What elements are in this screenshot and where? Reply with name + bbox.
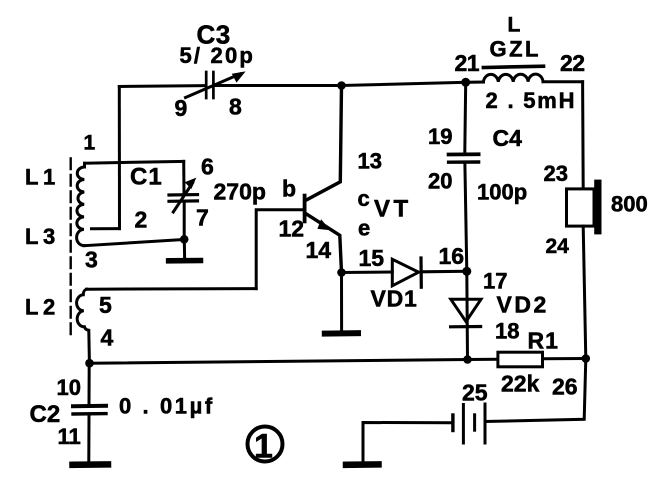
svg-text:18: 18 bbox=[495, 319, 519, 344]
capacitor C4 plates bbox=[449, 154, 479, 162]
svg-text:GZL: GZL bbox=[490, 37, 542, 62]
ground at C2 bbox=[73, 416, 109, 465]
svg-text:22k: 22k bbox=[501, 370, 540, 396]
wire node21 to inductor bbox=[466, 81, 484, 84]
svg-text:2 . 5mH: 2 . 5mH bbox=[486, 88, 577, 113]
ground at C1 bbox=[169, 239, 201, 260]
wire L1 top to C1 bbox=[85, 161, 184, 163]
svg-text:4: 4 bbox=[101, 324, 114, 350]
node 16 junction bbox=[462, 267, 471, 276]
wire top bus left segment bbox=[119, 84, 204, 88]
svg-text:17: 17 bbox=[483, 269, 507, 294]
capacitor C2 plates bbox=[73, 406, 106, 414]
svg-text:26: 26 bbox=[552, 374, 578, 400]
ground at emitter bbox=[325, 273, 358, 334]
svg-text:11: 11 bbox=[58, 424, 81, 449]
wire VD1 cathode to node 16 bbox=[421, 270, 467, 274]
svg-text:16: 16 bbox=[439, 243, 465, 269]
svg-text:15: 15 bbox=[359, 245, 385, 271]
diode VD1 triangle bbox=[392, 259, 418, 286]
svg-text:14: 14 bbox=[306, 237, 332, 263]
wire battery to ground corner bbox=[363, 423, 450, 462]
inductor L2 winding bbox=[77, 289, 90, 363]
wire C3 corner down to coil tap bbox=[118, 87, 121, 229]
wire L1 bottom (pin 3) to C1 bbox=[84, 240, 184, 246]
svg-text:0 . 01µf: 0 . 01µf bbox=[119, 394, 215, 419]
svg-text:100p: 100p bbox=[477, 180, 527, 205]
svg-text:L1: L1 bbox=[25, 165, 60, 190]
svg-text:24: 24 bbox=[546, 235, 570, 258]
svg-text:L3: L3 bbox=[25, 224, 60, 249]
inductor L1 winding bbox=[77, 163, 85, 245]
wire bottom bus bbox=[90, 360, 468, 364]
capacitor C3 plates bbox=[206, 72, 213, 98]
svg-text:22: 22 bbox=[560, 50, 585, 76]
diode VD2 triangle bbox=[451, 299, 481, 321]
diode VD1 cathode bar bbox=[419, 258, 422, 287]
speaker BE diaphragm bar bbox=[594, 180, 601, 235]
node emitter junction 15 bbox=[337, 268, 346, 277]
wire C1 stem top bbox=[182, 161, 185, 193]
core dashed line L1/L2 bbox=[69, 159, 71, 335]
svg-text:L2: L2 bbox=[25, 294, 60, 319]
svg-text:12: 12 bbox=[279, 215, 305, 241]
capacitor C1 trimmer arrow bbox=[173, 178, 196, 212]
battery GB plates bbox=[453, 404, 485, 443]
wire node 26 down to battery corner bbox=[486, 359, 586, 422]
svg-text:e: e bbox=[358, 216, 370, 241]
svg-text:c: c bbox=[358, 186, 370, 211]
wire C1 stem bottom bbox=[183, 203, 186, 240]
transistor VT collector bbox=[306, 86, 342, 201]
resistor R1 body bbox=[498, 352, 543, 367]
svg-text:20: 20 bbox=[428, 168, 452, 193]
transistor VT emitter with arrow bbox=[306, 214, 342, 273]
wire coil tap 2 bbox=[92, 227, 120, 230]
ground at battery bbox=[346, 461, 379, 468]
capacitor C3 trimmer arrow bbox=[186, 71, 246, 97]
wire right vertical to speaker bbox=[581, 82, 585, 189]
svg-text:13: 13 bbox=[358, 149, 382, 174]
svg-text:L: L bbox=[508, 14, 521, 37]
svg-text:R1: R1 bbox=[528, 328, 559, 354]
capacitor C1 plates bbox=[169, 195, 198, 202]
svg-text:800: 800 bbox=[611, 192, 648, 217]
speaker BE body bbox=[567, 189, 595, 226]
svg-text:7: 7 bbox=[196, 205, 209, 231]
svg-text:2: 2 bbox=[135, 207, 148, 233]
wire L2 top (pin 5) to base corner bbox=[87, 287, 257, 291]
svg-text:6: 6 bbox=[201, 154, 214, 180]
node L2 bottom junction bbox=[85, 359, 94, 368]
node C1/L1 bottom junction bbox=[180, 235, 189, 244]
wire top bus middle segment bbox=[216, 84, 342, 87]
node junction collector/top bus bbox=[337, 81, 346, 90]
svg-text:19: 19 bbox=[428, 124, 452, 149]
svg-text:b: b bbox=[282, 176, 296, 202]
svg-text:8: 8 bbox=[229, 94, 242, 120]
svg-text:9: 9 bbox=[175, 95, 188, 121]
svg-text:C1: C1 bbox=[130, 164, 163, 191]
svg-text:5/ 20p: 5/ 20p bbox=[180, 43, 256, 68]
wire R1 to node 26 bbox=[543, 357, 586, 360]
svg-text:1: 1 bbox=[254, 428, 273, 466]
wire emitter to VD1 anode bbox=[342, 271, 393, 275]
wire node 16 through VD2 to node 25 bbox=[465, 271, 469, 359]
wire C4 bottom to node 16 bbox=[465, 164, 467, 271]
inductor L GZL winding bbox=[483, 74, 543, 82]
svg-text:VD2: VD2 bbox=[497, 291, 549, 317]
svg-text:VD1: VD1 bbox=[371, 286, 418, 312]
svg-text:25: 25 bbox=[462, 379, 488, 405]
svg-text:VT: VT bbox=[374, 195, 412, 222]
svg-text:C4: C4 bbox=[493, 125, 523, 151]
svg-text:10: 10 bbox=[57, 375, 81, 400]
svg-text:270p: 270p bbox=[214, 178, 266, 204]
node 21 junction bbox=[461, 78, 470, 87]
svg-text:23: 23 bbox=[544, 161, 568, 186]
wire C2 stem bbox=[88, 363, 91, 404]
wire inductor to right corner bbox=[543, 80, 583, 83]
figure number circle 1 bbox=[248, 427, 283, 466]
svg-text:C2: C2 bbox=[30, 401, 61, 428]
wire top bus right segment bbox=[342, 82, 466, 85]
node 26 junction bbox=[582, 354, 591, 363]
wire node 25 to R1 bbox=[468, 358, 498, 361]
wire speaker to node 26 bbox=[583, 226, 586, 358]
svg-text:5: 5 bbox=[99, 292, 112, 318]
svg-text:1: 1 bbox=[84, 132, 96, 155]
svg-text:3: 3 bbox=[85, 247, 98, 273]
wire L2 to transistor base bbox=[256, 210, 303, 289]
diode VD2 cathode bar bbox=[451, 325, 481, 328]
wire C4 stem top bbox=[463, 82, 467, 152]
transistor VT base bar bbox=[303, 196, 307, 222]
svg-text:21: 21 bbox=[455, 50, 480, 76]
inductor L GZL core bar bbox=[483, 66, 543, 67]
node 25 junction bbox=[463, 355, 472, 364]
